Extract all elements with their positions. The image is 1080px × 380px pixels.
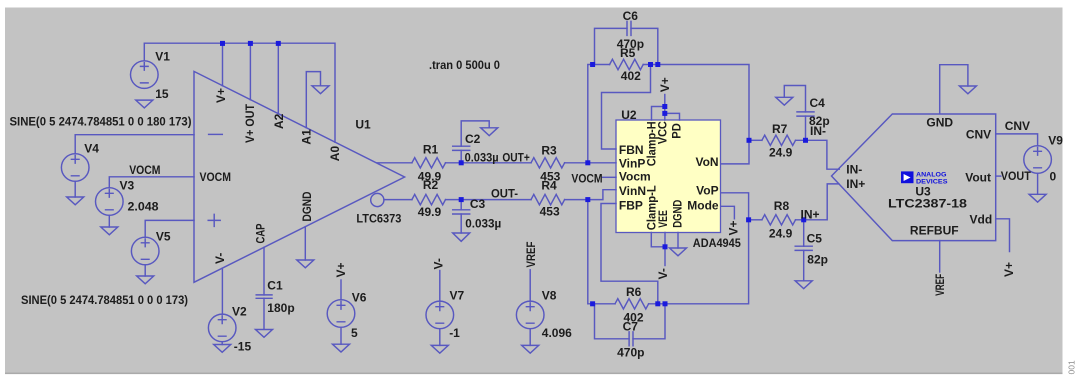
svg-text:V9: V9 <box>1048 134 1063 148</box>
svg-text:VREF: VREF <box>524 242 538 268</box>
svg-text:0: 0 <box>1050 170 1057 184</box>
svg-text:R5: R5 <box>620 46 636 60</box>
svg-text:VOCM: VOCM <box>129 163 160 177</box>
svg-text:REFBUF: REFBUF <box>910 223 959 237</box>
svg-text:GND: GND <box>926 116 953 130</box>
svg-text:VoN: VoN <box>695 155 718 169</box>
svg-text:FBP: FBP <box>619 198 643 212</box>
svg-text:IN+: IN+ <box>801 208 820 222</box>
svg-text:180p: 180p <box>267 301 294 315</box>
svg-text:470p: 470p <box>617 345 644 359</box>
svg-text:-1: -1 <box>449 326 460 340</box>
svg-text:FBN: FBN <box>619 143 644 157</box>
svg-text:V4: V4 <box>84 142 99 156</box>
svg-text:R4: R4 <box>541 179 557 193</box>
svg-text:R3: R3 <box>541 143 557 157</box>
svg-text:V-: V- <box>656 268 670 279</box>
svg-text:PD: PD <box>670 123 684 139</box>
svg-text:DGND: DGND <box>670 199 684 227</box>
svg-text:CNV: CNV <box>1005 119 1030 133</box>
svg-text:C7: C7 <box>623 320 639 334</box>
svg-text:VCC: VCC <box>656 121 670 144</box>
svg-text:LTC2387-18: LTC2387-18 <box>888 197 967 211</box>
svg-text:C2: C2 <box>465 132 481 146</box>
svg-text:V6: V6 <box>352 290 367 304</box>
svg-text:C6: C6 <box>623 9 639 23</box>
svg-text:453: 453 <box>540 204 560 218</box>
svg-text:15: 15 <box>155 87 169 101</box>
svg-text:402: 402 <box>621 69 641 83</box>
svg-text:VOUT: VOUT <box>1001 169 1032 183</box>
svg-text:V+: V+ <box>1002 262 1016 277</box>
svg-text:C4: C4 <box>810 96 826 110</box>
svg-text:U1: U1 <box>355 118 371 132</box>
svg-text:R7: R7 <box>772 122 788 136</box>
svg-text:C5: C5 <box>807 232 823 246</box>
svg-text:4.096: 4.096 <box>542 326 572 340</box>
svg-text:IN+: IN+ <box>846 177 865 191</box>
svg-text:VREF: VREF <box>933 274 947 296</box>
svg-text:.tran 0 500u 0: .tran 0 500u 0 <box>429 58 500 72</box>
svg-text:-15: -15 <box>234 340 252 354</box>
svg-text:IN-: IN- <box>810 124 826 138</box>
svg-text:V-: V- <box>213 253 227 264</box>
svg-text:SINE(0 5 2474.784851 0 0 180 1: SINE(0 5 2474.784851 0 0 180 173) <box>10 115 192 129</box>
svg-text:001: 001 <box>1067 360 1077 374</box>
svg-text:R1: R1 <box>423 143 439 157</box>
svg-text:U2: U2 <box>621 108 637 122</box>
svg-text:VEE: VEE <box>656 210 670 228</box>
svg-text:V+ OUT: V+ OUT <box>243 103 257 143</box>
svg-text:OUT+: OUT+ <box>502 150 529 164</box>
svg-text:ADA4945: ADA4945 <box>693 236 741 250</box>
svg-text:49.9: 49.9 <box>418 205 442 219</box>
svg-text:V2: V2 <box>232 305 247 319</box>
svg-text:VoP: VoP <box>696 183 718 197</box>
svg-text:V+: V+ <box>658 77 672 92</box>
svg-text:24.9: 24.9 <box>769 146 793 160</box>
svg-text:V+: V+ <box>214 88 228 103</box>
svg-text:Vocm: Vocm <box>619 169 651 183</box>
svg-text:V-: V- <box>432 258 446 269</box>
svg-text:CAP: CAP <box>253 224 267 244</box>
svg-text:IN-: IN- <box>846 162 862 176</box>
svg-text:0.033µ: 0.033µ <box>465 150 499 164</box>
svg-text:24.9: 24.9 <box>769 227 793 241</box>
svg-text:A0: A0 <box>328 146 342 162</box>
svg-text:V8: V8 <box>542 288 557 302</box>
svg-text:LTC6373: LTC6373 <box>356 212 401 226</box>
svg-text:CNV: CNV <box>966 127 991 141</box>
svg-text:5: 5 <box>351 326 358 340</box>
svg-text:V+: V+ <box>727 220 741 235</box>
svg-text:Mode: Mode <box>687 198 719 212</box>
svg-text:SINE(0 5 2474.784851 0 0 0 173: SINE(0 5 2474.784851 0 0 0 173) <box>21 293 188 307</box>
svg-text:R6: R6 <box>626 285 642 299</box>
svg-text:C3: C3 <box>470 197 486 211</box>
svg-text:V+: V+ <box>334 262 348 277</box>
svg-text:V1: V1 <box>155 49 170 63</box>
svg-text:ANALOG: ANALOG <box>916 171 947 178</box>
svg-text:OUT-: OUT- <box>491 187 518 201</box>
svg-text:VOCM: VOCM <box>200 170 232 184</box>
svg-text:0.033µ: 0.033µ <box>465 216 501 230</box>
svg-text:V7: V7 <box>450 288 465 302</box>
svg-text:VinN: VinN <box>619 184 646 198</box>
svg-text:A1: A1 <box>299 129 313 145</box>
svg-text:2.048: 2.048 <box>128 200 159 214</box>
svg-text:VinP: VinP <box>619 156 645 170</box>
svg-text:R8: R8 <box>774 199 790 213</box>
svg-text:Vout: Vout <box>965 171 991 185</box>
svg-text:DGND: DGND <box>300 191 314 221</box>
svg-text:VOCM: VOCM <box>571 171 602 185</box>
svg-text:Vdd: Vdd <box>970 212 993 226</box>
svg-text:A2: A2 <box>272 113 286 129</box>
svg-text:82p: 82p <box>807 253 828 267</box>
svg-text:V3: V3 <box>120 178 135 192</box>
svg-text:V5: V5 <box>156 230 171 244</box>
svg-text:C1: C1 <box>267 279 283 293</box>
svg-text:R2: R2 <box>423 178 439 192</box>
